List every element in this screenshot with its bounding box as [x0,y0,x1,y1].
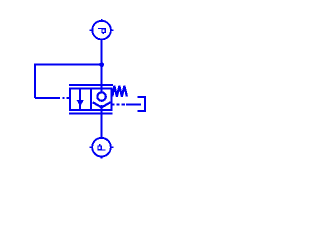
check valve ball [97,92,105,100]
tick east P1 [111,146,114,148]
spring [112,86,127,97]
valve body rect [70,88,112,110]
wire top circle to junction [101,40,103,64]
wire junction to check ball [101,65,103,93]
pilot dash b [67,97,70,99]
relief arrow head [77,100,84,106]
remote pilot dash 2 [116,104,119,106]
tick east T1 [111,29,114,31]
tick north P1 [101,136,103,139]
relief arrow stem [79,89,81,102]
valve top rail [69,84,113,86]
tick west P1 [90,146,93,148]
check valve seat chevron [93,102,111,107]
pilot wire loop bottom into valve [35,97,60,99]
tick west T1 [90,29,93,31]
tick south P1 [101,156,103,159]
label P rotated (bottom port) [98,144,106,150]
remote pilot dash 4 [126,104,141,106]
tick south T1 [101,39,103,42]
port circle T1 (top) [92,21,111,40]
port circle P1 (bottom) [92,138,111,157]
valve cell divider [90,88,92,110]
valve bottom rail [69,112,113,114]
junction node [99,62,104,67]
remote pilot dash 3 [121,104,124,106]
tick north T1 [101,19,103,21]
pilot wire loop top [35,64,102,66]
pilot dash a [62,97,64,99]
closed pilot port bracket [138,97,145,111]
wire valve to bottom circle [101,105,103,137]
label P rotated (top port) [98,29,105,34]
remote pilot dash 1 [111,104,114,106]
pilot wire loop left vertical [34,64,36,98]
relief arrow tail [79,105,81,110]
